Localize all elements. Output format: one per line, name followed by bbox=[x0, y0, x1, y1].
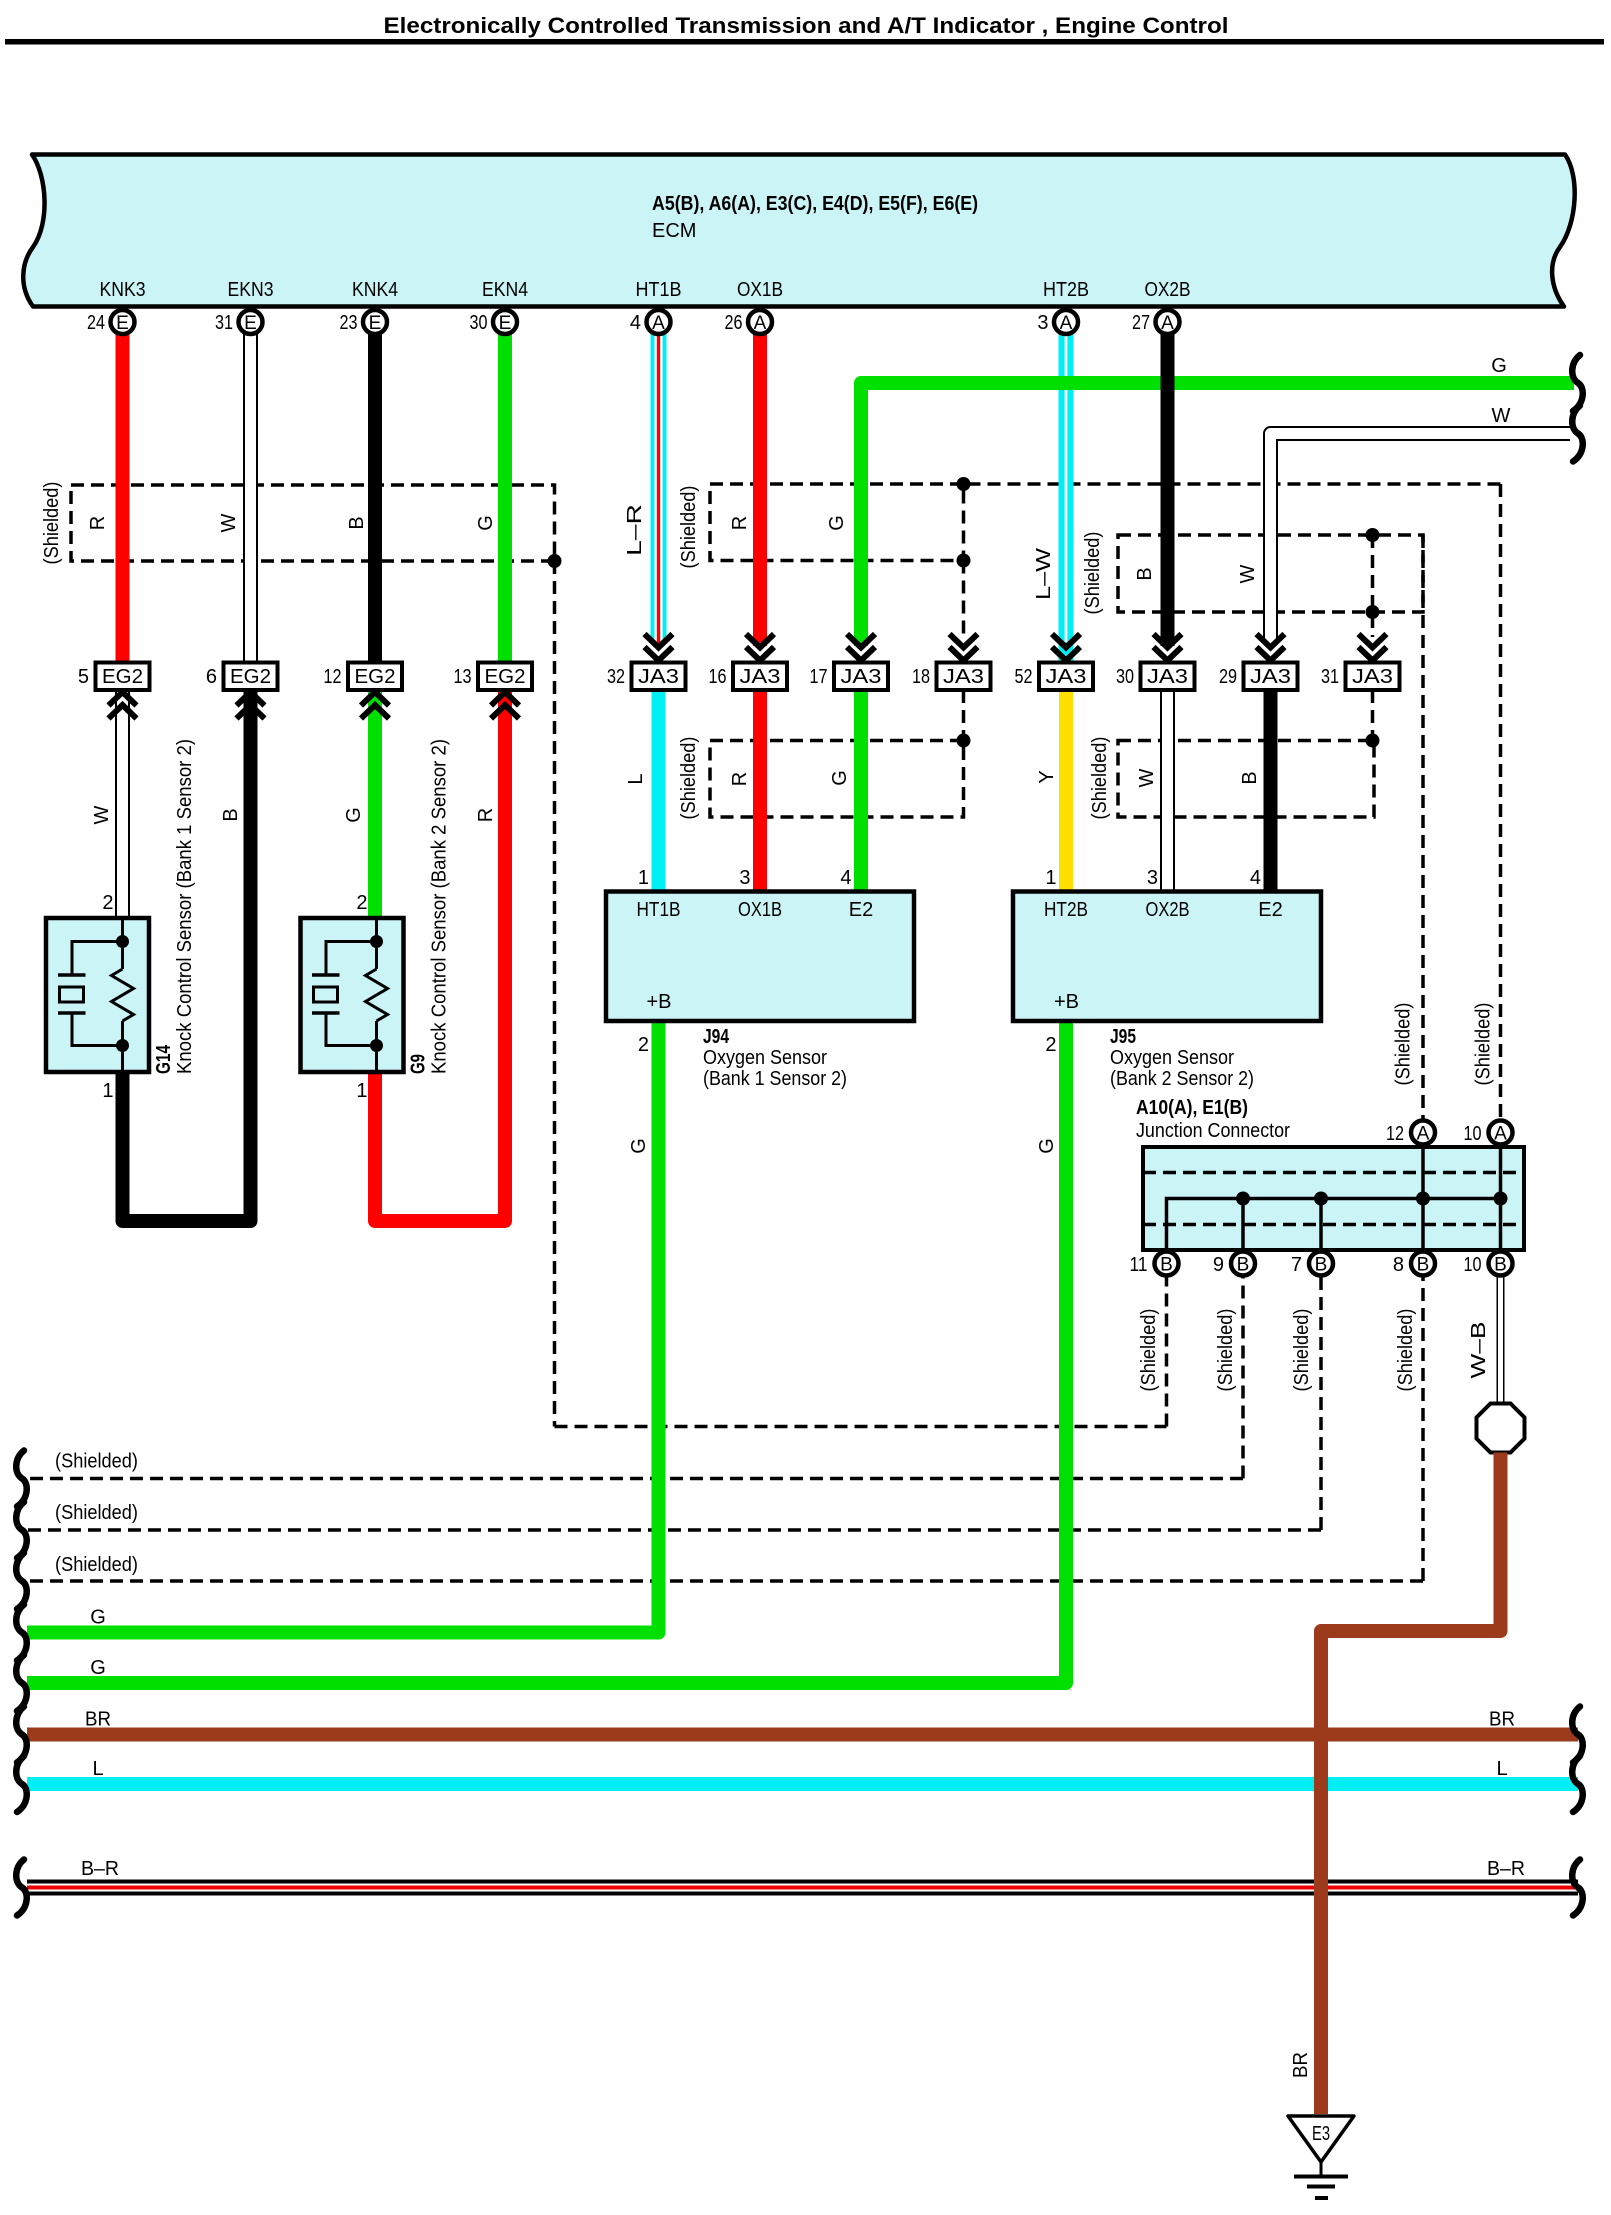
svg-text:(Bank 2 Sensor 2): (Bank 2 Sensor 2) bbox=[1110, 1068, 1254, 1090]
svg-text:(Shielded): (Shielded) bbox=[1082, 532, 1104, 615]
connector 5 EG2 bbox=[78, 663, 150, 691]
svg-text:OX2B: OX2B bbox=[1145, 279, 1191, 301]
wire W to G14 pin 2 bbox=[115, 689, 130, 920]
svg-text:EG2: EG2 bbox=[230, 666, 271, 688]
wire G (J94 +B) bbox=[27, 1021, 659, 1633]
wire G to J94 E2 bbox=[854, 689, 868, 893]
svg-text:Junction Connector: Junction Connector bbox=[1136, 1120, 1290, 1142]
ECM pin 24 E bbox=[111, 310, 135, 334]
svg-text:1: 1 bbox=[1045, 867, 1056, 889]
connector 16 JA3 bbox=[709, 663, 788, 691]
wire R from KNK3 bbox=[116, 334, 130, 664]
svg-text:7: 7 bbox=[1291, 1254, 1302, 1276]
svg-text:12: 12 bbox=[324, 666, 342, 688]
svg-text:E2: E2 bbox=[849, 899, 873, 921]
svg-text:2: 2 bbox=[638, 1034, 649, 1056]
svg-text:2: 2 bbox=[356, 892, 367, 914]
svg-text:G: G bbox=[343, 807, 365, 823]
svg-text:(Shielded): (Shielded) bbox=[1473, 1003, 1495, 1086]
svg-text:A: A bbox=[1060, 313, 1073, 334]
svg-text:A10(A), E1(B): A10(A), E1(B) bbox=[1136, 1097, 1248, 1119]
svg-text:Oxygen Sensor: Oxygen Sensor bbox=[1110, 1047, 1234, 1069]
connector 17 JA3 bbox=[810, 663, 889, 691]
svg-text:BR: BR bbox=[85, 1709, 111, 1731]
svg-text:G: G bbox=[90, 1657, 106, 1679]
svg-text:BR: BR bbox=[1489, 1709, 1515, 1731]
svg-text:6: 6 bbox=[206, 666, 217, 688]
svg-text:G9: G9 bbox=[408, 1054, 430, 1074]
shield line to junction connector pin 12A bbox=[1421, 535, 1425, 1147]
svg-text:26: 26 bbox=[725, 312, 743, 334]
oxygen sensor J95 box bbox=[1013, 892, 1321, 1022]
junction pin 10 B bbox=[1489, 1252, 1513, 1276]
ECM box bbox=[23, 155, 1574, 307]
svg-text:4: 4 bbox=[630, 312, 641, 334]
break symbols right bbox=[1572, 355, 1583, 411]
svg-text:8: 8 bbox=[1393, 1254, 1404, 1276]
svg-text:(Shielded): (Shielded) bbox=[1395, 1309, 1417, 1392]
connector 52 JA3 bbox=[1015, 663, 1094, 691]
svg-text:R: R bbox=[87, 516, 109, 530]
svg-text:E: E bbox=[116, 313, 129, 334]
svg-text:W: W bbox=[1492, 405, 1511, 427]
svg-text:1: 1 bbox=[356, 1080, 367, 1102]
svg-text:E2: E2 bbox=[1258, 899, 1282, 921]
wire G from ECM area to right break (top G wire) bbox=[861, 383, 1574, 646]
svg-text:Oxygen Sensor: Oxygen Sensor bbox=[703, 1047, 827, 1069]
svg-text:R: R bbox=[475, 808, 497, 822]
svg-text:A: A bbox=[754, 313, 767, 334]
svg-text:A5(B), A6(A), E3(C), E4(D), E5: A5(B), A6(A), E3(C), E4(D), E5(F), E6(E) bbox=[652, 193, 978, 215]
svg-text:+B: +B bbox=[1054, 991, 1079, 1013]
junction dots on shield boxes bbox=[548, 554, 562, 568]
svg-text:E3: E3 bbox=[1312, 2123, 1330, 2145]
svg-text:(Shielded): (Shielded) bbox=[1215, 1309, 1237, 1392]
svg-text:(Shielded): (Shielded) bbox=[1393, 1003, 1415, 1086]
wire L horizontal bbox=[27, 1777, 1578, 1791]
svg-text:1: 1 bbox=[638, 867, 649, 889]
shield box around knock sensor wires bbox=[71, 485, 555, 561]
ECM pin 4 A bbox=[647, 310, 671, 334]
wire R from OX1B bbox=[753, 334, 767, 646]
svg-text:(Shielded): (Shielded) bbox=[55, 1554, 138, 1576]
shielded line to pin 9B bbox=[27, 1477, 1243, 1481]
svg-text:(Shielded): (Shielded) bbox=[55, 1502, 138, 1524]
svg-text:1: 1 bbox=[102, 1080, 113, 1102]
shielded line to pin 7B bbox=[27, 1528, 1321, 1532]
svg-text:W: W bbox=[91, 805, 113, 824]
svg-text:G14: G14 bbox=[153, 1044, 175, 1074]
wire B from KNK4 bbox=[368, 334, 382, 664]
oxygen sensor J94 box bbox=[606, 892, 914, 1022]
wire W to J95 OX2B bbox=[1160, 689, 1175, 893]
svg-text:(Shielded): (Shielded) bbox=[55, 1451, 138, 1473]
svg-text:Knock Control Sensor (Bank 1 S: Knock Control Sensor (Bank 1 Sensor 2) bbox=[174, 739, 196, 1074]
svg-text:Knock Control Sensor (Bank 2 S: Knock Control Sensor (Bank 2 Sensor 2) bbox=[429, 739, 451, 1074]
wire L-W from HT2B bbox=[1059, 334, 1074, 664]
svg-text:23: 23 bbox=[340, 312, 358, 334]
svg-text:52: 52 bbox=[1015, 666, 1033, 688]
connector 18 JA3 bbox=[912, 663, 991, 691]
ground symbol E3 bbox=[1288, 2116, 1354, 2200]
svg-text:J94: J94 bbox=[703, 1026, 730, 1048]
svg-text:G: G bbox=[90, 1607, 106, 1629]
wire R to J94 OX1B bbox=[753, 689, 767, 893]
svg-text:G: G bbox=[1036, 1138, 1058, 1154]
svg-text:2: 2 bbox=[1045, 1034, 1056, 1056]
svg-text:Y: Y bbox=[1036, 770, 1058, 783]
svg-text:B: B bbox=[220, 808, 242, 821]
junction pin 11 B bbox=[1155, 1252, 1179, 1276]
wire G (J95 +B) bbox=[27, 1021, 1066, 1683]
svg-text:(Shielded): (Shielded) bbox=[1138, 1309, 1160, 1392]
svg-text:9: 9 bbox=[1213, 1254, 1224, 1276]
connector 6 EG2 bbox=[206, 663, 278, 691]
svg-text:B–R: B–R bbox=[1487, 1858, 1525, 1880]
svg-text:BR: BR bbox=[1290, 2052, 1312, 2078]
svg-text:E: E bbox=[499, 313, 512, 334]
break symbols left bbox=[16, 1451, 27, 1507]
svg-text:(Bank 1 Sensor 2): (Bank 1 Sensor 2) bbox=[703, 1068, 847, 1090]
svg-text:G: G bbox=[1491, 355, 1507, 377]
svg-text:18: 18 bbox=[912, 666, 930, 688]
svg-text:W: W bbox=[1237, 564, 1259, 583]
svg-text:B: B bbox=[1417, 1255, 1430, 1276]
svg-text:30: 30 bbox=[1116, 666, 1134, 688]
svg-text:10: 10 bbox=[1464, 1254, 1482, 1276]
svg-text:24: 24 bbox=[87, 312, 105, 334]
shield box below JA3 30/29 bbox=[1118, 741, 1374, 818]
knock control sensor G14 bbox=[46, 918, 149, 1072]
svg-text:G: G bbox=[475, 515, 497, 531]
svg-text:Electronically Controlled Tran: Electronically Controlled Transmission a… bbox=[384, 13, 1229, 38]
connector 12 EG2 bbox=[324, 663, 403, 691]
svg-text:JA3: JA3 bbox=[1046, 666, 1087, 688]
svg-text:JA3: JA3 bbox=[1250, 666, 1291, 688]
svg-text:B: B bbox=[1237, 1255, 1250, 1276]
wire W-B below junction pin 10B bbox=[1497, 1277, 1505, 1404]
svg-text:G: G bbox=[829, 770, 851, 786]
shield box below JA3 16/17 bbox=[710, 741, 964, 818]
svg-text:(Shielded): (Shielded) bbox=[1291, 1309, 1313, 1392]
junction pin 7 B bbox=[1309, 1252, 1333, 1276]
svg-text:4: 4 bbox=[840, 867, 851, 889]
svg-text:B: B bbox=[1134, 567, 1156, 580]
wire L-R from HT1B bbox=[651, 334, 667, 664]
connector 29 JA3 bbox=[1219, 663, 1298, 691]
ECM pin 30 E bbox=[493, 310, 517, 334]
svg-text:JA3: JA3 bbox=[1147, 666, 1188, 688]
svg-text:JA3: JA3 bbox=[841, 666, 882, 688]
svg-text:11: 11 bbox=[1130, 1254, 1148, 1276]
svg-text:B: B bbox=[1315, 1255, 1328, 1276]
svg-text:E: E bbox=[369, 313, 382, 334]
shield drain from knock shield box to junction pin 11B bbox=[553, 561, 557, 1427]
svg-text:A: A bbox=[652, 313, 665, 334]
ECM pin 3 A bbox=[1054, 310, 1078, 334]
svg-text:5: 5 bbox=[78, 666, 89, 688]
connector 31 JA3 bbox=[1321, 663, 1400, 691]
ECM pin 31 E bbox=[239, 310, 263, 334]
connector 13 EG2 bbox=[454, 663, 533, 691]
wire G from EKN4 bbox=[498, 334, 512, 664]
svg-text:JA3: JA3 bbox=[943, 666, 984, 688]
wire L to J94 HT1B bbox=[652, 689, 666, 893]
svg-text:HT2B: HT2B bbox=[1044, 899, 1088, 921]
svg-text:ECM: ECM bbox=[652, 220, 696, 242]
svg-text:3: 3 bbox=[739, 867, 750, 889]
shield line from OX1B shield to junction connector pin 10A bbox=[964, 482, 1501, 486]
svg-text:EG2: EG2 bbox=[102, 666, 143, 688]
svg-text:10: 10 bbox=[1464, 1123, 1482, 1145]
svg-text:OX1B: OX1B bbox=[737, 279, 783, 301]
svg-text:A: A bbox=[1161, 313, 1174, 334]
svg-text:W: W bbox=[1136, 768, 1158, 787]
ECM pin 27 A bbox=[1156, 310, 1180, 334]
svg-text:B–R: B–R bbox=[81, 1858, 119, 1880]
svg-text:JA3: JA3 bbox=[740, 666, 781, 688]
svg-text:E: E bbox=[244, 313, 257, 334]
wire W from EKN3 bbox=[243, 334, 258, 664]
svg-text:EG2: EG2 bbox=[485, 666, 526, 688]
connector 32 JA3 bbox=[607, 663, 686, 691]
svg-text:(Shielded): (Shielded) bbox=[41, 482, 63, 565]
svg-text:R: R bbox=[729, 516, 751, 530]
svg-text:G: G bbox=[826, 515, 848, 531]
wire G to G9 pin 2 bbox=[368, 689, 382, 920]
svg-text:EG2: EG2 bbox=[355, 666, 396, 688]
wire BR horizontal bbox=[27, 1728, 1578, 1742]
shield box around OX2B wires (above JA3) bbox=[1118, 535, 1423, 612]
wire BR from octagon to ground bbox=[1321, 1453, 1501, 2115]
svg-text:EKN3: EKN3 bbox=[228, 279, 274, 301]
svg-text:2: 2 bbox=[102, 892, 113, 914]
ECM pin 23 E bbox=[363, 310, 387, 334]
junction pin 10 A bbox=[1489, 1121, 1513, 1145]
svg-text:31: 31 bbox=[1321, 666, 1339, 688]
svg-text:J95: J95 bbox=[1110, 1026, 1136, 1048]
svg-text:16: 16 bbox=[709, 666, 727, 688]
svg-text:4: 4 bbox=[1250, 867, 1261, 889]
svg-text:L–W: L–W bbox=[1033, 548, 1055, 600]
svg-text:B: B bbox=[1239, 771, 1261, 784]
svg-text:A: A bbox=[1417, 1124, 1430, 1145]
svg-text:KNK4: KNK4 bbox=[352, 279, 398, 301]
ECM pin 26 A bbox=[748, 310, 772, 334]
svg-text:KNK3: KNK3 bbox=[100, 279, 146, 301]
svg-text:B: B bbox=[1160, 1255, 1173, 1276]
noise filter octagon bbox=[1477, 1404, 1525, 1453]
wire B from 6 EG2 to G14 pin 1 bbox=[123, 689, 251, 1221]
shield stub through 31 JA3 bbox=[1371, 535, 1375, 637]
svg-text:L–R: L–R bbox=[624, 504, 646, 556]
svg-text:OX2B: OX2B bbox=[1146, 899, 1190, 921]
svg-text:32: 32 bbox=[607, 666, 625, 688]
svg-text:R: R bbox=[729, 772, 751, 786]
shield stub through 18 JA3 bbox=[962, 561, 966, 638]
svg-text:L: L bbox=[1496, 1758, 1507, 1780]
svg-text:HT2B: HT2B bbox=[1043, 279, 1089, 301]
svg-text:12: 12 bbox=[1386, 1123, 1404, 1145]
svg-text:3: 3 bbox=[1147, 867, 1158, 889]
svg-text:EKN4: EKN4 bbox=[482, 279, 528, 301]
svg-text:(Shielded): (Shielded) bbox=[1089, 737, 1111, 820]
connector 30 JA3 bbox=[1116, 663, 1195, 691]
svg-text:B: B bbox=[346, 516, 368, 529]
junction pin 9 B bbox=[1231, 1252, 1255, 1276]
junction pin 12 A bbox=[1411, 1121, 1435, 1145]
svg-text:B: B bbox=[1494, 1255, 1507, 1276]
svg-text:L: L bbox=[625, 773, 647, 784]
wire W horizontal top right to 29 JA3 bbox=[1271, 434, 1571, 643]
svg-text:HT1B: HT1B bbox=[637, 899, 681, 921]
svg-text:JA3: JA3 bbox=[1352, 666, 1393, 688]
svg-text:(Shielded): (Shielded) bbox=[678, 737, 700, 820]
svg-text:+B: +B bbox=[647, 991, 672, 1013]
svg-text:W–B: W–B bbox=[1468, 1322, 1490, 1379]
wire B to J95 E2 bbox=[1264, 689, 1278, 893]
svg-text:29: 29 bbox=[1219, 666, 1237, 688]
wire R from 13 EG2 to G9 pin 1 bbox=[375, 689, 505, 1221]
svg-text:31: 31 bbox=[215, 312, 233, 334]
svg-text:27: 27 bbox=[1132, 312, 1150, 334]
wire B from OX2B bbox=[1161, 334, 1175, 646]
shielded line to pin 8B bbox=[27, 1579, 1423, 1583]
svg-text:13: 13 bbox=[454, 666, 472, 688]
svg-text:30: 30 bbox=[470, 312, 488, 334]
wire B-R horizontal bbox=[27, 1880, 1578, 1896]
svg-text:G: G bbox=[628, 1138, 650, 1154]
shield box around OX1B wires (above JA3) bbox=[710, 484, 964, 561]
svg-text:17: 17 bbox=[810, 666, 828, 688]
svg-text:A: A bbox=[1494, 1124, 1507, 1145]
knock control sensor G9 bbox=[301, 918, 404, 1072]
svg-text:W: W bbox=[218, 513, 240, 532]
svg-text:OX1B: OX1B bbox=[738, 899, 782, 921]
wire Y to J95 HT2B bbox=[1059, 689, 1073, 893]
junction pin 8 B bbox=[1411, 1252, 1435, 1276]
svg-text:HT1B: HT1B bbox=[636, 279, 682, 301]
svg-text:JA3: JA3 bbox=[638, 666, 679, 688]
svg-text:(Shielded): (Shielded) bbox=[678, 486, 700, 569]
svg-text:3: 3 bbox=[1037, 312, 1048, 334]
svg-text:L: L bbox=[92, 1758, 103, 1780]
